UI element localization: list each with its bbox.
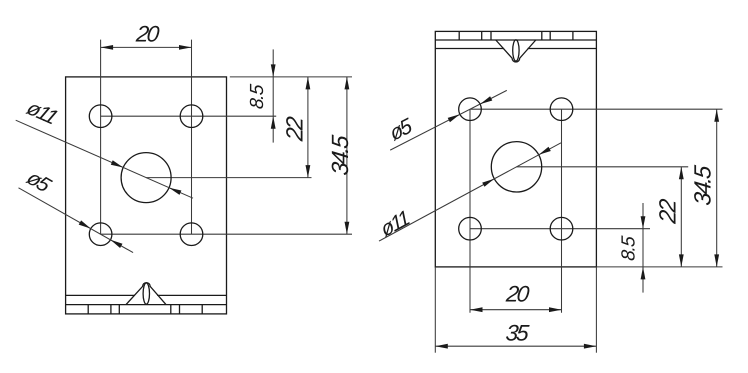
right leader Ø11: arrows (482, 179, 494, 187)
right view: center hole (Ø11) (491, 142, 541, 192)
right view: flange inner line (435, 48, 504, 50)
right view: hole top-right (Ø5) (550, 98, 573, 121)
left dim 34.5: dimension line (346, 77, 348, 234)
right leader Ø5: line (390, 90, 507, 150)
right view: hole bottom-right (Ø5) (550, 217, 573, 240)
svg-text:22: 22 (282, 115, 308, 143)
left view: centerline vertical column 1 (100, 40, 102, 235)
left view: hole bottom-left (Ø5) (89, 223, 112, 246)
right view: centerline top hole row (470, 108, 723, 110)
right dim 34.5: dimension line (716, 109, 718, 267)
svg-text:35: 35 (505, 321, 531, 346)
right view: bottom edge extension line (596, 266, 722, 268)
right dim 22: arrows (679, 167, 684, 180)
left view: plate outline (66, 77, 227, 314)
svg-text:34.5: 34.5 (327, 133, 353, 176)
svg-text:ø5: ø5 (387, 114, 416, 146)
right leader Ø11: line (379, 143, 561, 241)
svg-text:22: 22 (655, 198, 681, 226)
right view: centerline vertical column 2 (561, 109, 563, 313)
left dim 20: arrows (101, 45, 114, 50)
right dim 35: dimension line (435, 345, 596, 347)
left view: hole top-right (Ø5) (180, 105, 203, 128)
left view: centerline top hole row (101, 115, 277, 117)
right dim 34.5: arrows (714, 109, 719, 122)
right dim 35: arrows (435, 344, 448, 349)
left leader Ø11: line (16, 120, 193, 198)
svg-text:8.5: 8.5 (619, 235, 640, 262)
right dim 22: dimension line (680, 167, 682, 267)
right leader Ø5: arrows (448, 114, 460, 122)
right view: flange serration ticks (458, 31, 460, 40)
right view: rib ellipse (513, 40, 519, 61)
right view: right edge extension line (595, 267, 597, 353)
left dim 22: dimension line (307, 77, 309, 178)
right view: centerline big hole (517, 166, 689, 168)
svg-text:20: 20 (134, 21, 161, 46)
left dim 34.5: arrows (345, 77, 350, 90)
svg-text:20: 20 (504, 282, 531, 307)
left view: flange serration ticks (87, 305, 89, 314)
right view: stiffening rib (496, 40, 536, 62)
left leader Ø11: arrows (111, 160, 123, 167)
left leader Ø5: line (19, 188, 134, 253)
left leader Ø5: arrows (79, 220, 91, 228)
right dim 8.5: arrows (641, 216, 646, 229)
left view: stiffening rib (126, 283, 166, 305)
left view: hole bottom-right (Ø5) (180, 223, 203, 246)
right view: centerline vertical column 1 (469, 109, 471, 313)
right view: hole bottom-left (Ø5) (459, 217, 482, 240)
svg-text:34.5: 34.5 (689, 163, 715, 206)
left view: top edge extension line (230, 76, 352, 78)
left dim 8.5: arrows (271, 64, 276, 77)
right dim 20: arrows (470, 307, 483, 312)
left view: centerline vertical column 2 (191, 40, 193, 235)
right dim 20: dimension line (470, 309, 562, 311)
left dim 22: arrows (306, 77, 311, 90)
left view: center hole (Ø11) (121, 153, 171, 203)
left view: centerline bottom hole row (101, 233, 352, 235)
svg-text:ø11: ø11 (23, 97, 61, 129)
left view: flange bend line upper (66, 294, 135, 296)
svg-text:ø11: ø11 (378, 207, 412, 242)
right view: flange bend line (rib base) (435, 39, 596, 41)
right view: plate outline (435, 31, 596, 267)
left view: rib ellipse (143, 283, 149, 304)
right view: hole top-left (Ø5) (459, 98, 482, 121)
left dim 20: dimension line (101, 46, 192, 48)
right dim 8.5: dimension line (642, 203, 644, 293)
right view: centerline bottom hole row (470, 228, 650, 230)
svg-text:8.5: 8.5 (247, 83, 268, 110)
left view: centerline big hole (146, 177, 311, 179)
left view: hole top-left (Ø5) (89, 105, 112, 128)
left dim 8.5: dimension line (272, 49, 274, 142)
left view: flange bend line lower (66, 304, 227, 306)
right view: left edge extension line (434, 267, 436, 353)
